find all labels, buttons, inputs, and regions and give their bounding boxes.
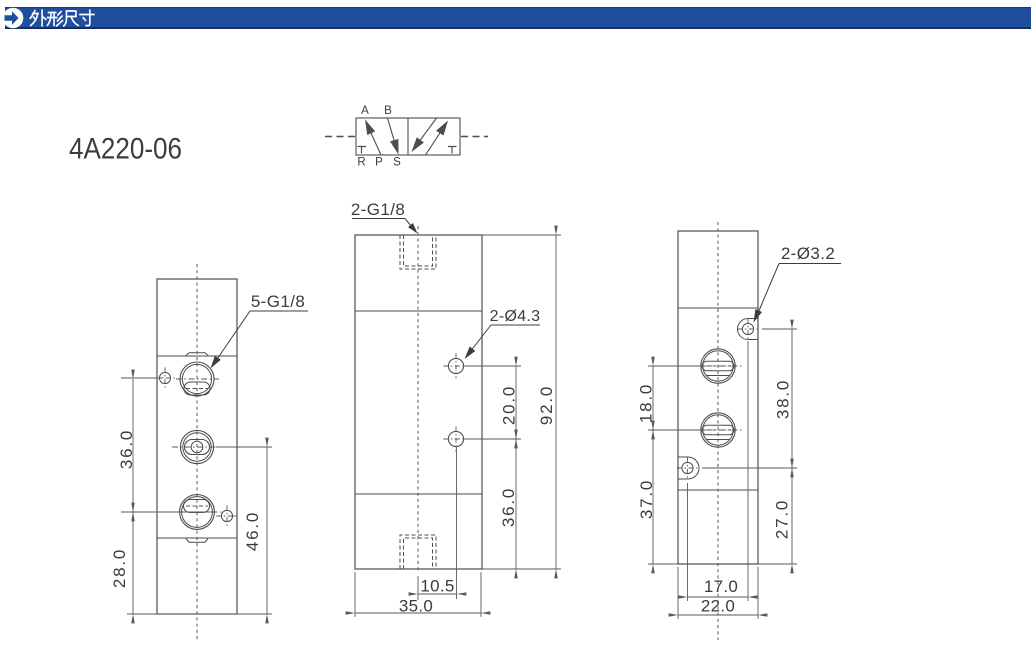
svg-text:10.5: 10.5 (420, 577, 454, 596)
svg-text:2-Ø4.3: 2-Ø4.3 (490, 308, 541, 325)
svg-text:46.0: 46.0 (243, 511, 262, 551)
svg-text:27.0: 27.0 (773, 499, 792, 539)
svg-text:5-G1/8: 5-G1/8 (251, 292, 305, 311)
svg-text:18.0: 18.0 (637, 383, 656, 423)
svg-text:22.0: 22.0 (701, 597, 735, 616)
svg-text:36.0: 36.0 (499, 487, 518, 527)
svg-text:28.0: 28.0 (110, 548, 129, 588)
svg-text:37.0: 37.0 (637, 479, 656, 519)
svg-text:B: B (384, 105, 392, 117)
svg-text:92.0: 92.0 (537, 385, 556, 425)
svg-text:20.0: 20.0 (500, 385, 519, 425)
svg-text:P: P (375, 157, 383, 169)
svg-text:17.0: 17.0 (704, 577, 738, 596)
svg-text:35.0: 35.0 (399, 597, 433, 616)
svg-text:R: R (357, 157, 365, 169)
svg-text:2-Ø3.2: 2-Ø3.2 (781, 244, 835, 263)
svg-text:4A220-06: 4A220-06 (69, 133, 182, 166)
svg-text:36.0: 36.0 (117, 429, 136, 469)
svg-text:A: A (361, 105, 369, 117)
svg-text:38.0: 38.0 (774, 379, 793, 419)
svg-text:2-G1/8: 2-G1/8 (351, 200, 405, 219)
svg-text:S: S (393, 157, 401, 169)
